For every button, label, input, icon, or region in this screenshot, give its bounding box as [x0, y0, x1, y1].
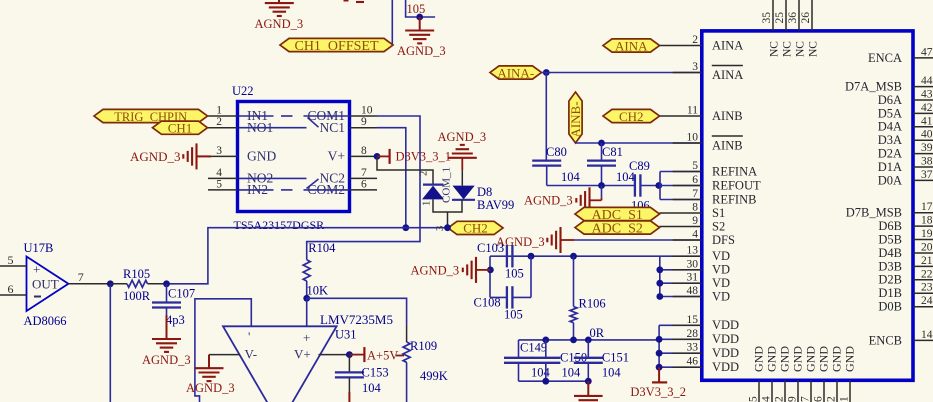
- ADC bottom pin GND: [761, 346, 779, 402]
- svg-text:NC1: NC1: [319, 120, 345, 135]
- svg-text:D7B_MSB: D7B_MSB: [846, 206, 902, 220]
- svg-text:AGND_3: AGND_3: [186, 381, 235, 395]
- svg-text:V-: V-: [245, 347, 258, 362]
- wire VD net: [490, 255, 701, 257]
- ADC pin 46 VDD: [673, 356, 739, 374]
- svg-text:OUT: OUT: [32, 277, 59, 292]
- ground AGND_3 above D8 (inverted): [448, 145, 477, 186]
- ADC pin 14 ENCB: [869, 329, 933, 347]
- svg-text:D3V3_3_2: D3V3_3_2: [630, 385, 686, 399]
- svg-text:2: 2: [774, 396, 786, 402]
- diode D8b body: [453, 186, 475, 200]
- power port D3V3_3_2 bar: [652, 367, 667, 382]
- svg-text:D2B: D2B: [878, 273, 902, 287]
- svg-text:+: +: [33, 262, 40, 277]
- svg-text:NC: NC: [769, 41, 781, 57]
- wire AINA- to pin 3: [542, 72, 702, 74]
- svg-text:LMV7235M5: LMV7235M5: [320, 312, 393, 327]
- U22 pin 4 NO2: [208, 167, 273, 186]
- U22 pin 1 IN1: [208, 105, 268, 124]
- U22 pin 3 GND: [208, 145, 276, 164]
- wire C103/C108 frame: [490, 256, 531, 297]
- svg-text:47: 47: [921, 46, 933, 58]
- svg-text:30: 30: [687, 258, 699, 270]
- svg-text:104: 104: [561, 170, 581, 184]
- svg-text:8: 8: [361, 145, 367, 157]
- svg-text:GND: GND: [765, 346, 779, 372]
- svg-text:V+: V+: [294, 347, 311, 362]
- svg-text:AGND_3: AGND_3: [142, 353, 191, 367]
- svg-text:ENCA: ENCA: [868, 51, 902, 65]
- capacitor C89: [635, 174, 641, 196]
- node junction V+ pin8: [374, 153, 381, 160]
- svg-text:AINA: AINA: [712, 68, 743, 82]
- svg-text:D8: D8: [477, 185, 492, 199]
- svg-text:0R: 0R: [590, 326, 605, 340]
- svg-text:7: 7: [800, 396, 812, 402]
- svg-text:C151: C151: [602, 351, 629, 365]
- svg-text:D5B: D5B: [878, 232, 902, 246]
- resistor R109: [403, 342, 410, 362]
- svg-text:105: 105: [407, 2, 426, 16]
- svg-text:R104: R104: [308, 241, 336, 255]
- node junction VDD 28: [656, 336, 663, 343]
- svg-text:C89: C89: [629, 159, 650, 173]
- svg-text:2: 2: [692, 34, 698, 46]
- wire VD bracket: [660, 256, 701, 296]
- node junction C81 bottom: [598, 182, 605, 189]
- svg-text:9: 9: [787, 396, 799, 402]
- svg-text:5: 5: [692, 160, 698, 172]
- ADC pin 15 VDD: [673, 314, 739, 332]
- wire 105-net from top: [406, 0, 436, 17]
- ground at cap rail (clipped): [574, 381, 603, 400]
- wire C80/C81 bottom: [547, 166, 635, 186]
- net label AINB- vertical: [568, 92, 583, 143]
- U22 switch line NO1-NC1: [239, 127, 307, 129]
- ADC pin 17 D7B_MSB: [846, 201, 933, 219]
- U17B pin 7 output: [68, 270, 110, 284]
- svg-text:REFINA: REFINA: [712, 164, 757, 178]
- svg-text:2: 2: [216, 116, 222, 128]
- svg-text:4: 4: [216, 167, 222, 179]
- net label CH2 (ADC side): [603, 109, 660, 124]
- svg-text:C80: C80: [546, 145, 567, 159]
- svg-text:BAV99: BAV99: [477, 198, 514, 212]
- ADC pin 21 D3B: [878, 255, 933, 273]
- svg-text:GND: GND: [247, 149, 276, 164]
- svg-text:CH1: CH1: [168, 121, 193, 136]
- ADC pin 20 D4B: [878, 242, 933, 260]
- ADC pin 28 VDD: [673, 328, 739, 346]
- svg-text:41: 41: [921, 115, 933, 127]
- svg-text:40: 40: [921, 129, 933, 141]
- net label CH2 (at D8): [448, 221, 503, 236]
- svg-text:AGND_3: AGND_3: [255, 17, 304, 31]
- svg-text:C153: C153: [362, 366, 389, 380]
- svg-text:R109: R109: [410, 339, 437, 353]
- svg-text:NC: NC: [808, 41, 820, 57]
- svg-text:17: 17: [921, 201, 933, 213]
- svg-text:NC: NC: [795, 41, 807, 57]
- node junction VD 30: [656, 266, 663, 273]
- svg-text:GND: GND: [752, 346, 766, 372]
- svg-text:AINA: AINA: [712, 38, 743, 52]
- svg-text:D6B: D6B: [878, 219, 902, 233]
- ADC pin 3 AINA(bar): [673, 61, 744, 82]
- capacitor C80: [532, 161, 561, 166]
- net label CH1: [153, 121, 208, 136]
- capacitor C103: [507, 245, 513, 267]
- node junction VD 31: [656, 280, 663, 287]
- svg-text:GND: GND: [817, 346, 831, 372]
- svg-text:VDD: VDD: [712, 318, 739, 332]
- capacitor C151: [574, 340, 603, 381]
- svg-text:18: 18: [921, 215, 933, 227]
- ADC pin 11 AINB: [660, 105, 743, 123]
- ADC pin 39 D2A: [878, 142, 933, 160]
- diode D8b cathode bar: [452, 199, 475, 201]
- svg-text:5: 5: [216, 178, 222, 190]
- svg-text:3: 3: [216, 145, 222, 157]
- svg-text:D3V3_3_1: D3V3_3_1: [396, 150, 452, 164]
- svg-text:NC: NC: [782, 41, 794, 57]
- node junction VDD 33: [656, 350, 663, 357]
- node junction C103 ground: [487, 267, 494, 274]
- svg-text:D6A: D6A: [878, 93, 902, 107]
- ADC pin 2 AINA: [660, 34, 744, 52]
- svg-text:VD: VD: [712, 276, 730, 290]
- ADC bottom pin GND: [774, 346, 792, 402]
- U22 pin 2 NO1: [208, 116, 273, 135]
- wire NC1 to CH2 net: [377, 128, 406, 228]
- U31 V+ pin: [319, 354, 350, 356]
- node junction R104 bottom: [303, 295, 310, 302]
- op-amp U31 body: [223, 326, 337, 402]
- svg-text:GND: GND: [843, 346, 857, 372]
- ground AGND_3 at 105-net: [405, 17, 434, 43]
- ADC pin 38 D1A: [878, 156, 933, 174]
- svg-text:20: 20: [921, 242, 933, 254]
- svg-text:VD: VD: [712, 263, 730, 277]
- svg-text:104: 104: [362, 381, 382, 395]
- wire VDD cap rail top: [519, 339, 661, 341]
- ADC pin 7 REFINB: [673, 188, 757, 206]
- ADC pin 31 VD: [673, 272, 730, 290]
- svg-text:104: 104: [562, 366, 582, 380]
- ADC pin 43 D6A: [878, 89, 933, 107]
- node junction REF bracket: [655, 182, 662, 189]
- resistor R104: [303, 260, 310, 281]
- svg-text:D3B: D3B: [878, 259, 902, 273]
- svg-text:D7A_MSB: D7A_MSB: [845, 80, 902, 94]
- svg-text:D1A: D1A: [878, 160, 902, 174]
- ADC pin 30 VD: [673, 258, 730, 276]
- svg-text:104: 104: [531, 366, 551, 380]
- ADC pin 41 D4A: [878, 115, 933, 133]
- svg-text:28: 28: [687, 328, 699, 340]
- node junction bottom/C150: [542, 378, 549, 385]
- ADC pin 33 VDD: [673, 342, 739, 360]
- svg-text:ADC_S2: ADC_S2: [592, 221, 643, 236]
- svg-text:A+5V: A+5V: [367, 349, 398, 363]
- wire VDD bracket: [659, 325, 701, 367]
- net label TRIG_CHPIN: [94, 109, 208, 123]
- svg-text:36: 36: [787, 12, 799, 24]
- capacitor C81: [587, 143, 616, 166]
- svg-text:44: 44: [921, 75, 933, 87]
- svg-text:42: 42: [921, 102, 933, 114]
- svg-text:ENCB: ENCB: [869, 333, 902, 347]
- node junction VDD 46: [656, 364, 663, 371]
- svg-text:26: 26: [800, 12, 812, 24]
- ADC pin 18 D6B: [878, 215, 933, 233]
- svg-text:U17B: U17B: [24, 241, 54, 255]
- svg-text:GND: GND: [830, 346, 844, 372]
- svg-text:1: 1: [839, 396, 851, 402]
- svg-text:100R: 100R: [123, 289, 151, 303]
- svg-text:10: 10: [361, 105, 373, 117]
- svg-text:C149: C149: [520, 341, 547, 355]
- svg-text:VDD: VDD: [712, 360, 739, 374]
- svg-text:R105: R105: [123, 267, 150, 281]
- svg-text:2: 2: [419, 171, 430, 176]
- wire R109 to bottom edge: [406, 362, 408, 402]
- svg-text:CH1_OFFSET: CH1_OFFSET: [294, 39, 378, 54]
- U22 switch arm COM2-NC2: [307, 179, 319, 189]
- svg-text:AINA: AINA: [615, 38, 648, 53]
- ADC top pin 36 NC: [787, 0, 807, 57]
- ADC pin 8 S1: [660, 202, 726, 220]
- svg-text:35: 35: [761, 12, 773, 24]
- svg-text:19: 19: [921, 228, 933, 240]
- power port D3V3_3_1 bar: [377, 149, 390, 164]
- ADC pin 23 D1B: [878, 282, 933, 300]
- svg-text:S1: S1: [712, 206, 725, 220]
- svg-text:39: 39: [921, 142, 933, 154]
- svg-text:15: 15: [687, 314, 699, 326]
- U22 pin 7 NC2: [319, 167, 377, 186]
- svg-text:6: 6: [8, 282, 14, 296]
- ADC top pin 26 NC: [800, 0, 820, 57]
- wire A+5V to R109: [396, 355, 404, 357]
- svg-text:GND: GND: [791, 346, 805, 372]
- svg-text:CH2: CH2: [463, 221, 488, 236]
- svg-text:25: 25: [774, 12, 786, 24]
- resistor R106: [570, 307, 577, 323]
- svg-text:AGND_3: AGND_3: [397, 44, 446, 58]
- svg-text:GND: GND: [778, 346, 792, 372]
- svg-text:4: 4: [761, 396, 773, 402]
- node junction rail/C150: [542, 337, 549, 344]
- svg-text:U22: U22: [232, 84, 254, 98]
- node junction V+ / C153: [346, 351, 353, 358]
- U22 switch arm COM1-NC1: [308, 118, 319, 128]
- U22 switch line IN2-COM2: [239, 189, 349, 191]
- wire R106 bottom: [573, 323, 575, 340]
- net label ADC_S2: [575, 221, 660, 236]
- ground AGND_3 at C103: [463, 257, 491, 283]
- ADC bottom pin GND: [813, 346, 831, 402]
- svg-text:AINB: AINB: [712, 109, 743, 123]
- svg-text:VDD: VDD: [712, 332, 739, 346]
- node junction VD 48: [656, 293, 663, 300]
- wire output down to edge: [109, 284, 111, 402]
- node junction rail/C151: [585, 337, 592, 344]
- wire output to R105: [110, 283, 127, 285]
- svg-text:22: 22: [921, 268, 933, 280]
- node junction 105-net: [416, 14, 423, 21]
- ADC top pin 25 NC: [774, 0, 794, 57]
- node junction NC1/CH2: [402, 224, 409, 231]
- net label ADC_S1: [575, 207, 660, 222]
- ground stub clipped at very top: [344, 1, 365, 2]
- net label CH1_OFFSET: [280, 38, 393, 53]
- IC ADC chip body: [702, 31, 913, 380]
- svg-text:7: 7: [692, 188, 698, 200]
- ADC pin 48 VD: [673, 285, 730, 303]
- svg-text:AGND_3: AGND_3: [438, 130, 487, 144]
- svg-text:COM_1: COM_1: [441, 167, 453, 203]
- U22 pin 10 COM1: [307, 105, 377, 124]
- wire plus-input net: [307, 298, 407, 324]
- node junction VD/C103: [528, 253, 535, 260]
- svg-text:U31: U31: [335, 328, 357, 342]
- svg-text:REFINB: REFINB: [712, 192, 756, 206]
- ground AGND_3 below C107: [152, 308, 181, 352]
- svg-text:6: 6: [361, 178, 367, 190]
- svg-text:AINB-: AINB-: [568, 101, 583, 137]
- ADC pin 40 D3A: [878, 129, 933, 147]
- svg-text:1: 1: [422, 201, 433, 206]
- ADC bottom pin GND: [800, 346, 818, 402]
- ADC bottom pin GND: [839, 346, 857, 402]
- svg-text:': ': [248, 329, 250, 344]
- svg-text:D0B: D0B: [878, 300, 902, 314]
- svg-text:AD8066: AD8066: [24, 314, 67, 328]
- U22 pin 6 COM2: [307, 178, 377, 197]
- svg-text:9: 9: [692, 215, 698, 227]
- resistor R105: [127, 280, 148, 287]
- svg-text:AINB: AINB: [712, 139, 743, 153]
- svg-text:VDD: VDD: [712, 346, 739, 360]
- ground AGND_3 at U31 V-: [195, 355, 224, 382]
- ground drop from C81 junction: [576, 186, 601, 214]
- svg-text:7: 7: [78, 270, 84, 284]
- ADC pin 6 REFOUT: [673, 174, 761, 192]
- ADC pin 47 ENCA: [868, 46, 933, 64]
- wire C89 right: [640, 185, 660, 187]
- svg-text:AINA-: AINA-: [497, 65, 534, 80]
- svg-text:499K: 499K: [420, 369, 448, 383]
- ADC top pin 35 NC: [761, 0, 781, 57]
- svg-text:43: 43: [921, 89, 933, 101]
- net label AINA-: [490, 65, 542, 80]
- capacitor C153: [335, 355, 364, 378]
- U22 switch line NO2-NC2: [239, 177, 307, 179]
- svg-text:D2A: D2A: [878, 147, 902, 161]
- ADC pin 10 AINB(bar): [673, 132, 743, 153]
- U22 pin 8 V+: [328, 145, 377, 164]
- wire AINA- down to C80: [545, 73, 547, 161]
- op-amp U17B body: [27, 257, 69, 312]
- node junction D8/CH2: [444, 224, 451, 231]
- svg-text:D3A: D3A: [878, 133, 902, 147]
- wire CH1_OFFSET vertical: [391, 0, 393, 45]
- svg-text:AGND_3: AGND_3: [524, 194, 573, 208]
- svg-text:V+: V+: [328, 149, 345, 164]
- wire minus input loop: [195, 299, 251, 402]
- svg-text:37: 37: [921, 169, 933, 181]
- node junction bottom/C151: [585, 378, 592, 385]
- svg-text:D5A: D5A: [878, 106, 902, 120]
- svg-text:D0A: D0A: [878, 173, 902, 187]
- U22 pin 5 IN2: [208, 178, 268, 197]
- svg-text:104: 104: [602, 366, 622, 380]
- diode D8a body: [422, 186, 444, 200]
- resistor R109 top lead: [406, 325, 408, 342]
- ADC pin 19 D5B: [878, 228, 933, 246]
- node junction R105/C107: [163, 280, 170, 287]
- svg-text:REFOUT: REFOUT: [712, 178, 761, 192]
- wire REFINA/REFOUT/REFINB bracket: [659, 172, 701, 200]
- capacitor C108: [507, 286, 513, 308]
- svg-text:105: 105: [505, 267, 524, 281]
- svg-text:46: 46: [687, 356, 699, 368]
- svg-text:31: 31: [687, 272, 699, 284]
- U22 chip body TS5A23157: [238, 102, 350, 212]
- svg-text:11: 11: [687, 105, 698, 117]
- svg-text:23: 23: [921, 282, 933, 294]
- diode D8a cathode bar: [423, 184, 444, 186]
- svg-text:7: 7: [361, 167, 367, 179]
- resistor R106 top lead: [573, 256, 575, 306]
- svg-text:+: +: [303, 330, 310, 345]
- wire AINB- net to pin 10: [575, 142, 701, 144]
- svg-text:S2: S2: [712, 219, 725, 233]
- power port A+5V bar: [349, 347, 364, 362]
- svg-text:C103: C103: [477, 241, 504, 255]
- ADC bottom pin GND: [826, 346, 844, 402]
- capacitor C150: [531, 340, 560, 381]
- svg-text:D1B: D1B: [878, 286, 902, 300]
- svg-text:21: 21: [921, 255, 933, 267]
- svg-text:6: 6: [692, 174, 698, 186]
- svg-text:CH2: CH2: [619, 109, 644, 124]
- wire COM1 to R104: [307, 116, 420, 260]
- node junction AINA-: [543, 69, 550, 76]
- svg-text:24: 24: [921, 295, 933, 307]
- wire R105 to junction: [148, 283, 167, 285]
- svg-text:VD: VD: [712, 289, 730, 303]
- ground AGND_3 at U22 pin3: [183, 143, 211, 169]
- svg-text:3: 3: [435, 226, 446, 231]
- svg-text:8: 8: [692, 202, 698, 214]
- svg-text:38: 38: [921, 156, 933, 168]
- ADC pin 42 D5A: [878, 102, 933, 120]
- wire pin8 to D8 anode: [377, 156, 433, 184]
- svg-text:3: 3: [692, 61, 698, 73]
- svg-text:C81: C81: [602, 145, 623, 159]
- ADC pin 37 D0A: [878, 169, 933, 187]
- svg-text:1: 1: [216, 105, 222, 117]
- wire CH2 net horizontal: [167, 228, 449, 284]
- wire C153 to edge: [348, 377, 350, 402]
- wire R104 to node: [306, 281, 308, 298]
- U17B pin 6: [0, 282, 27, 296]
- U31 V- pin: [209, 354, 240, 356]
- U22 pin 9 NC1: [319, 116, 377, 135]
